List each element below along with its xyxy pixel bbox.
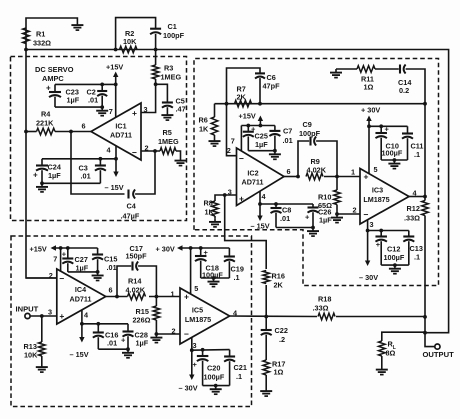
ground (C27/C15) xyxy=(92,272,104,281)
svg-text:R4: R4 xyxy=(41,110,51,119)
ground (C16/C28) xyxy=(122,349,134,358)
wire R5 to ground xyxy=(176,151,181,157)
svg-text:+: + xyxy=(193,360,198,369)
op-amp IC4 AD711 xyxy=(57,269,106,324)
svg-text:4.02K: 4.02K xyxy=(126,286,146,295)
capacitor C10 (100uF polarized) xyxy=(375,125,402,161)
capacitor C9 xyxy=(299,120,321,146)
resistor R7 xyxy=(235,85,252,108)
node R10 bottom / IC2 -in wire xyxy=(335,212,339,216)
wire C14 to IC3 out line xyxy=(406,69,425,104)
wire IC2 pin2 xyxy=(227,104,237,156)
svg-text:+: + xyxy=(121,336,126,345)
capacitor C4 xyxy=(121,190,140,221)
resistor R13 xyxy=(24,316,46,364)
ground (R8) xyxy=(209,216,221,227)
pin 4 label IC5 xyxy=(233,309,238,318)
wire IC3 output xyxy=(409,196,425,198)
pin 2 label IC5 xyxy=(172,327,176,336)
svg-text:7: 7 xyxy=(109,107,113,116)
svg-text:C20: C20 xyxy=(207,364,220,373)
wire C6 loop xyxy=(227,68,261,104)
ground (C10/C11) xyxy=(388,160,400,169)
resistor R8 xyxy=(204,199,219,217)
node R2 left xyxy=(114,48,118,52)
wire IC5 pin3 xyxy=(191,337,193,350)
capacitor C28 (1uF polarized) xyxy=(121,324,149,349)
capacitor C14 xyxy=(398,65,412,96)
ground (top, R1) xyxy=(71,22,83,31)
svg-text:.33Ω: .33Ω xyxy=(404,214,420,223)
resistor R11 xyxy=(357,66,375,92)
pin 3 label IC5 xyxy=(193,341,197,350)
svg-text:R5: R5 xyxy=(163,128,172,137)
capacitor C8 (.01) xyxy=(271,204,292,228)
capacitor C12 (100uF polarized) xyxy=(375,231,404,266)
pin 4 label IC1 xyxy=(107,146,112,155)
svg-text:.1: .1 xyxy=(234,273,240,282)
svg-text:3: 3 xyxy=(48,308,52,317)
svg-text:.01: .01 xyxy=(107,263,117,272)
svg-text:R3: R3 xyxy=(164,64,173,73)
capacitor C18 (100uF polarized) xyxy=(195,248,223,280)
node C8 top xyxy=(274,202,278,206)
wire C24/C3 box top xyxy=(42,158,116,160)
ground (R17) xyxy=(260,388,272,397)
wire IC5 pin5 lead xyxy=(190,248,192,294)
wire C20/C21 box bottom xyxy=(203,385,230,387)
capacitor C25 (1uF polarized) xyxy=(243,125,268,151)
svg-text:+15V: +15V xyxy=(239,112,256,121)
wire IC1 pin3 xyxy=(141,84,156,112)
svg-text:5: 5 xyxy=(194,284,198,293)
svg-text:100µF: 100µF xyxy=(382,149,403,158)
ground (R10) xyxy=(331,214,343,223)
ground (C12/C13) xyxy=(389,265,401,274)
node C10 top xyxy=(379,124,383,128)
capacitor C11 (.1) xyxy=(402,126,423,160)
capacitor C26 (1uF polarized) xyxy=(305,204,332,228)
wire C5 to ground xyxy=(166,107,168,111)
svg-text:−: − xyxy=(184,329,189,339)
op-amp IC3 LM1875 xyxy=(360,169,409,225)
svg-text:−: − xyxy=(364,210,369,220)
wire IC2 pin7 lead xyxy=(240,126,242,152)
svg-text:226Ω: 226Ω xyxy=(133,316,151,325)
node R9/R10/C9/IC3 +in xyxy=(335,175,339,179)
supply -15V IC4 xyxy=(70,324,89,359)
wire R2/C1 loop xyxy=(116,18,156,50)
capacitor C17 xyxy=(126,244,148,271)
node IC5 pin3 xyxy=(190,348,194,352)
node +15V / C23C2 box xyxy=(114,83,118,87)
resistor R14 xyxy=(126,277,146,300)
resistor R6 xyxy=(199,104,218,138)
resistor R17 xyxy=(263,360,285,377)
svg-text:R6: R6 xyxy=(199,116,208,125)
ground (R13) xyxy=(36,364,48,373)
svg-text:.1: .1 xyxy=(414,253,420,262)
svg-text:IC4: IC4 xyxy=(75,285,86,294)
wire INPUT to IC4 pin3 xyxy=(30,315,57,317)
svg-text:C7: C7 xyxy=(283,127,292,136)
node C18 top xyxy=(199,246,203,250)
svg-text:+15V: +15V xyxy=(30,245,47,254)
svg-text:LM1875: LM1875 xyxy=(363,195,389,204)
ground (C18/C19) xyxy=(208,278,220,287)
wire C27/C15 box bottom xyxy=(68,271,98,273)
svg-text:1Ω: 1Ω xyxy=(364,83,374,92)
node IC3 pin3 xyxy=(366,229,370,233)
svg-text:+: + xyxy=(132,108,137,118)
svg-text:4.02K: 4.02K xyxy=(307,166,327,175)
ground (R6) xyxy=(209,138,221,147)
wire C25/C7 box bottom xyxy=(248,150,275,152)
svg-text:AD711: AD711 xyxy=(242,178,264,187)
svg-text:1MEG: 1MEG xyxy=(158,137,179,146)
svg-text:1µF: 1µF xyxy=(136,339,149,348)
svg-text:R12: R12 xyxy=(407,204,420,213)
ground (RL) xyxy=(376,366,388,375)
svg-text:+: + xyxy=(46,84,51,93)
capacitor C13 (.1) xyxy=(403,231,423,266)
ground (R11 left) xyxy=(330,69,342,78)
wire C23/C2 box top xyxy=(55,83,116,85)
svg-text:+: + xyxy=(376,240,381,249)
node IC2 +in xyxy=(223,193,227,197)
svg-text:– 15V: – 15V xyxy=(70,350,89,359)
svg-text:8Ω: 8Ω xyxy=(386,349,396,358)
svg-text:.01: .01 xyxy=(81,172,91,181)
svg-text:.33Ω: .33Ω xyxy=(313,304,329,313)
resistor R3 xyxy=(152,50,181,85)
svg-text:R16: R16 xyxy=(272,272,285,281)
svg-text:+: + xyxy=(305,213,310,222)
svg-text:−: − xyxy=(239,154,244,164)
svg-text:−: − xyxy=(132,148,137,158)
wire C1 bottom lead xyxy=(155,34,157,50)
node R2 right / R3 top xyxy=(154,48,158,52)
resistor R10 xyxy=(318,177,340,215)
wire R4 to IC1 output xyxy=(26,131,91,133)
wire IC2 pin3 / R8 xyxy=(215,195,237,201)
node C15 ground xyxy=(96,270,100,274)
svg-text:+: + xyxy=(204,248,209,257)
svg-text:1µF: 1µF xyxy=(255,140,268,149)
node C27 top xyxy=(66,246,70,250)
svg-text:+15V: +15V xyxy=(106,63,123,72)
pin 1 label IC3 xyxy=(351,168,355,177)
svg-text:0.2: 0.2 xyxy=(399,86,409,95)
svg-text:1Ω: 1Ω xyxy=(274,368,284,377)
wire C12/C13 box top xyxy=(368,230,409,232)
capacitor C15 (.01) xyxy=(92,248,117,272)
node +15V arrow xyxy=(259,124,263,128)
node IC5 pin5 xyxy=(189,246,193,250)
node output (RL/sense) xyxy=(423,331,427,335)
resistor R15 xyxy=(133,297,160,335)
node R14/R15/IC5 pin1 xyxy=(155,295,159,299)
wire C18/C19 box bottom xyxy=(201,277,230,279)
node R14 left xyxy=(115,295,119,299)
wire to IC3 pin2 xyxy=(337,213,360,215)
svg-text:2: 2 xyxy=(227,146,231,155)
svg-text:.2: .2 xyxy=(279,335,285,344)
pin 7 label IC1 xyxy=(109,107,113,116)
node C3 top xyxy=(99,157,103,161)
svg-text:100pF: 100pF xyxy=(299,129,321,138)
svg-text:AMPC: AMPC xyxy=(42,74,64,83)
ground (C8/C26) xyxy=(307,228,319,237)
svg-text:+: + xyxy=(59,311,64,321)
svg-text:IC1: IC1 xyxy=(115,122,126,131)
svg-text:R14: R14 xyxy=(128,277,142,286)
wire IC3 pin3 xyxy=(367,220,369,231)
node IC2 out xyxy=(296,175,300,179)
capacitor C22 xyxy=(261,317,288,361)
wire C10/C11 box bottom xyxy=(381,159,407,161)
wire C17 right lead xyxy=(138,266,156,297)
svg-text:.01: .01 xyxy=(283,136,293,145)
svg-text:3: 3 xyxy=(193,341,197,350)
resistor R2 xyxy=(120,29,138,53)
svg-text:C21: C21 xyxy=(234,363,247,372)
svg-text:3: 3 xyxy=(370,220,374,229)
wire C8/C26 box bottom xyxy=(276,227,313,229)
wire C5 branch xyxy=(156,84,168,102)
svg-text:C22: C22 xyxy=(275,326,288,335)
ground (C20/C21) xyxy=(210,386,222,395)
svg-text:OUTPUT: OUTPUT xyxy=(423,350,455,359)
supply -30V IC5 xyxy=(179,350,198,392)
ground (C25/C7) xyxy=(269,151,281,160)
capacitor C16 (.01) xyxy=(93,324,119,349)
svg-text:IC2: IC2 xyxy=(247,169,258,178)
node C16 top xyxy=(96,322,100,326)
wire C17 loop xyxy=(117,266,131,297)
svg-text:.1: .1 xyxy=(414,150,420,159)
pin 3 label IC3 xyxy=(370,220,374,229)
label INPUT xyxy=(16,305,39,314)
wire R14 right xyxy=(149,296,180,298)
svg-text:100µF: 100µF xyxy=(204,373,225,382)
resistor R1 xyxy=(23,28,51,48)
node C10/C11 ground xyxy=(393,158,397,162)
pin 6 label IC2 xyxy=(287,167,291,176)
svg-text:+: + xyxy=(364,172,369,182)
wire R16 to output node xyxy=(265,285,267,317)
wire IC4 pin2 xyxy=(26,277,57,279)
svg-text:AD711: AD711 xyxy=(70,295,92,304)
svg-text:1: 1 xyxy=(171,290,175,299)
node C26 ground xyxy=(311,226,315,230)
capacitor C6 xyxy=(255,73,280,91)
svg-text:100pF: 100pF xyxy=(163,31,185,40)
node IC4 pin4 xyxy=(80,322,84,326)
op-amp IC2 AD711 xyxy=(237,148,285,206)
wire IC2 pin4 xyxy=(259,191,261,204)
pin 2 label IC1 xyxy=(145,144,149,153)
node IC3 out xyxy=(423,195,427,199)
resistor R4 xyxy=(36,110,55,135)
capacitor C1 xyxy=(150,22,185,40)
node C7 ground xyxy=(273,149,277,153)
wire C24/C3 box bottom xyxy=(42,182,100,184)
wire IC1 pin4 xyxy=(115,146,117,159)
svg-text:LM1875: LM1875 xyxy=(185,315,211,324)
node IC2 pin4 xyxy=(258,202,262,206)
pin 3 label IC1 xyxy=(144,105,148,114)
node C18/C19 ground xyxy=(212,276,216,280)
svg-text:5: 5 xyxy=(374,165,378,174)
pin 7 label IC2 xyxy=(231,137,235,146)
svg-text:7: 7 xyxy=(231,137,235,146)
node R15 bottom xyxy=(155,332,159,336)
node C12/C13 ground xyxy=(393,263,397,267)
svg-text:.1: .1 xyxy=(236,372,242,381)
node R4 left xyxy=(24,130,28,134)
node IC1 pin2 xyxy=(153,149,157,153)
svg-text:+ 30V: + 30V xyxy=(156,245,175,254)
capacitor C27 (1uF polarized) xyxy=(62,248,89,273)
svg-text:IC5: IC5 xyxy=(192,306,203,315)
node pin4/-15V xyxy=(114,157,118,161)
svg-text:−: − xyxy=(59,274,64,284)
capacitor C7 (.01) xyxy=(269,126,292,151)
svg-text:150pF: 150pF xyxy=(126,252,148,261)
pin 3 label IC4 xyxy=(48,308,52,317)
node C25 top xyxy=(246,124,250,128)
supply +30V IC5 pin5 xyxy=(156,245,230,254)
svg-text:6: 6 xyxy=(82,122,86,131)
node +30V / C10C11 box xyxy=(367,124,371,128)
svg-text:– 30V: – 30V xyxy=(179,384,198,393)
resistor R12 xyxy=(404,197,428,223)
dashed box: IC4/IC5 main amplifier enclosure xyxy=(11,236,252,407)
wire IC1 out down to C4 xyxy=(71,132,125,195)
label DC SERVO AMPC xyxy=(35,65,74,83)
wire to OUTPUT terminal xyxy=(425,333,435,347)
node feedback/IC3-out xyxy=(423,102,427,106)
wire C16/C28 box bottom xyxy=(98,348,128,350)
pin 2 label IC4 xyxy=(49,271,53,280)
wire C10/C11 box top xyxy=(369,125,408,127)
wire R11/C14 branch xyxy=(336,68,357,70)
svg-text:+: + xyxy=(385,125,390,134)
svg-text:IC3: IC3 xyxy=(372,186,383,195)
wire IC4 pin4 xyxy=(81,310,83,324)
wire C9 loop xyxy=(298,141,309,177)
capacitor C5 xyxy=(162,97,186,114)
pin 5 label IC5 xyxy=(194,284,198,293)
svg-text:– 30V: – 30V xyxy=(359,273,378,282)
svg-text:DC SERVO: DC SERVO xyxy=(35,65,74,74)
supply +30V IC3 pin5 xyxy=(361,106,380,127)
wire node A vertical (R1/R4/IC4 pin2) xyxy=(26,50,57,279)
wire C6 bottom lead xyxy=(259,78,261,104)
op-amp IC1 AD711 xyxy=(91,103,141,160)
wire C12/C13 box bottom xyxy=(381,264,409,266)
dashed box: DC servo amp enclosure xyxy=(11,57,187,221)
resistor R18 xyxy=(313,295,336,320)
supply +15V IC2 pin7 xyxy=(239,112,264,125)
node R13 top xyxy=(40,314,44,318)
terminal OUTPUT xyxy=(435,344,440,349)
svg-text:2K: 2K xyxy=(274,281,284,290)
svg-text:1: 1 xyxy=(351,168,355,177)
pin 5 label IC3 xyxy=(374,165,378,174)
svg-text:– 15V: – 15V xyxy=(251,222,270,231)
capacitor C3 (.01) xyxy=(79,159,106,184)
wire C23/C2 box bottom xyxy=(55,106,102,108)
supply -15V IC2 xyxy=(251,204,270,231)
node output (R12/R18) xyxy=(423,315,427,319)
supply +15V IC4 pin7 xyxy=(30,245,98,254)
svg-text:1K: 1K xyxy=(199,125,209,134)
svg-text:C4: C4 xyxy=(127,202,137,211)
capacitor C2 (.01) xyxy=(87,84,108,107)
wire RL to ground xyxy=(381,356,383,366)
svg-text:INPUT: INPUT xyxy=(16,305,39,314)
svg-text:.01: .01 xyxy=(107,339,117,348)
resistor R16 xyxy=(263,271,285,290)
svg-text:+: + xyxy=(239,194,244,204)
svg-text:10K: 10K xyxy=(24,351,38,360)
svg-text:2: 2 xyxy=(353,206,357,215)
svg-text:R1: R1 xyxy=(36,30,45,39)
node R7/C6 right xyxy=(258,102,262,106)
svg-text:7: 7 xyxy=(53,255,57,264)
resistor R9 xyxy=(306,157,327,180)
svg-text:+: + xyxy=(62,250,67,259)
pin 3 label IC2 xyxy=(228,188,232,197)
node C20 top xyxy=(201,348,205,352)
pin 6 label IC1 xyxy=(82,122,86,131)
node IC2 -in xyxy=(225,102,229,106)
supply -30V IC3 xyxy=(359,231,378,283)
wire feedback line y104 xyxy=(215,103,426,105)
node C2 ground xyxy=(100,105,104,109)
wire R17 to ground xyxy=(265,375,267,388)
wire R11 to C14 xyxy=(375,68,399,70)
capacitor C21 (.1) xyxy=(224,350,247,386)
ground (C5) xyxy=(161,112,173,121)
wire C4 to IC1 pin2 node xyxy=(135,151,155,194)
wire RL branch xyxy=(382,332,425,341)
wire IC4 output xyxy=(106,296,128,298)
svg-text:.47: .47 xyxy=(176,105,186,114)
node IC1 output xyxy=(69,130,73,134)
svg-text:221K: 221K xyxy=(36,119,54,128)
svg-text:1K: 1K xyxy=(205,208,215,217)
svg-text:6: 6 xyxy=(287,167,291,176)
capacitor C24 (1uF polarized) xyxy=(33,159,62,184)
svg-text:C9: C9 xyxy=(303,120,312,129)
node C24 ground xyxy=(40,181,44,185)
pin 4 label IC3 xyxy=(413,189,418,198)
wire R12 to output node xyxy=(424,216,426,317)
pin 7 label IC4 xyxy=(53,255,57,264)
label OUTPUT xyxy=(423,350,455,359)
capacitor C20 (100uF polarized) xyxy=(193,350,225,386)
svg-text:+: + xyxy=(33,171,38,180)
terminal INPUT xyxy=(25,313,30,318)
svg-text:2: 2 xyxy=(172,327,176,336)
supply -15V IC1 xyxy=(105,159,124,192)
pin 2 label IC2 xyxy=(227,146,231,155)
node IC4 pin7 xyxy=(59,246,63,250)
wire IC2 pin3 to R16 xyxy=(225,195,267,269)
